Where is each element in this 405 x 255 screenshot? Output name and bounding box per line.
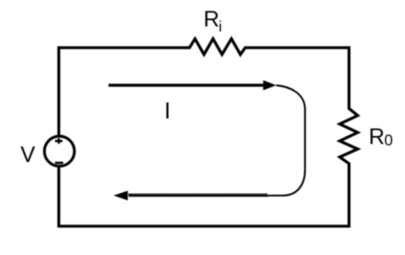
svg-text:i: i	[219, 19, 222, 36]
svg-text:I: I	[164, 98, 170, 124]
svg-text:V: V	[21, 142, 36, 167]
svg-text:R: R	[369, 124, 385, 149]
svg-text:0: 0	[384, 133, 393, 150]
svg-text:R: R	[204, 7, 220, 32]
